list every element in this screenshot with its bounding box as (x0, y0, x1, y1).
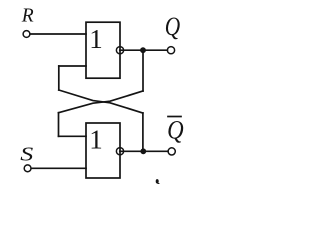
wire U1 lower input horizontal (59, 65, 86, 67)
gate U1 box (86, 22, 120, 78)
wire R to U1 (30, 33, 86, 35)
wire riser from Qbar junction up (142, 113, 144, 151)
wire left upper vertical (58, 66, 60, 90)
output bubble U1 (116, 47, 123, 54)
input terminal S (24, 165, 31, 172)
wire diagonal from left upper vertical to Qbar riser (59, 90, 143, 113)
junction node Qbar (140, 148, 146, 154)
junction node Q (140, 47, 146, 53)
wire S to U2 (31, 167, 86, 169)
wire U2 output to Qbar terminal (120, 150, 168, 152)
svg-text:S: S (20, 143, 33, 165)
stray mark bottom right (156, 179, 159, 183)
svg-text:R: R (21, 5, 34, 26)
output bubble U2 (116, 148, 123, 155)
overbar of Qbar label (168, 116, 181, 118)
label S (20, 143, 33, 165)
svg-text:1: 1 (89, 24, 103, 54)
wire left lower vertical (58, 113, 60, 137)
svg-text:1: 1 (89, 124, 103, 154)
wire U1 output to Q terminal (120, 49, 168, 51)
input terminal R (23, 31, 30, 38)
wire diagonal from Q riser to left lower vertical (59, 91, 144, 113)
output terminal Qbar (168, 148, 175, 155)
svg-text:Q: Q (165, 13, 180, 41)
svg-text:Q: Q (167, 116, 184, 145)
label Q (165, 13, 180, 41)
gate U2 box (86, 123, 120, 178)
wire into U2 upper input (59, 135, 87, 137)
label Qbar (167, 116, 184, 145)
output terminal Q (167, 47, 174, 54)
wire Q junction down (142, 50, 144, 91)
